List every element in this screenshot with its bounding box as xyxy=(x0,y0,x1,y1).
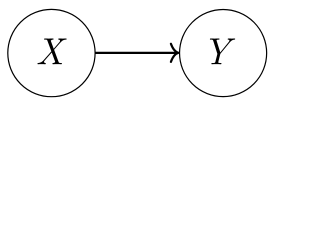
node X label xyxy=(37,39,66,65)
node Y label xyxy=(210,39,235,65)
node X circle xyxy=(8,9,95,96)
wire arrow shaft X to Y xyxy=(95,52,176,54)
arrowhead xyxy=(171,44,179,62)
node Y circle xyxy=(180,10,267,97)
